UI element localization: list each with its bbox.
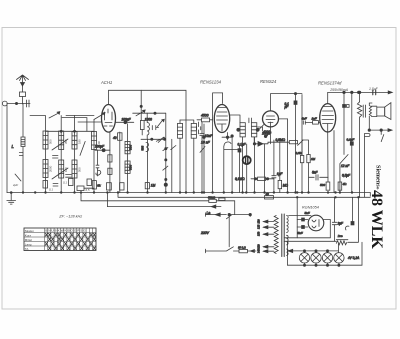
0,5uF label: [342, 174, 351, 178]
svg-text:Lang: Lang: [25, 242, 32, 246]
svg-text:500: 500: [49, 139, 53, 144]
svg-text:60: 60: [97, 140, 101, 144]
choke Dro: [336, 197, 358, 245]
0,5M resistor horizontal: [263, 138, 298, 144]
RENS1234 electrodes: [217, 108, 228, 132]
1uF cap: [272, 140, 284, 193]
2x0,1uF label: [12, 181, 90, 192]
rail3 resistors: [208, 195, 225, 202]
Siemens logo text: [368, 165, 385, 249]
antenna: [17, 75, 29, 104]
svg-text:0,5μF: 0,5μF: [342, 174, 351, 178]
wave trap cap: [15, 153, 23, 182]
5k resistor: [92, 181, 101, 189]
rail 2: [118, 193, 370, 198]
RENS24 grid coil label: [258, 127, 271, 134]
L label: [12, 144, 15, 149]
svg-text:1M: 1M: [151, 184, 156, 188]
100pF cap node: [95, 145, 110, 152]
svg-text:110: 110: [257, 219, 261, 224]
switch right: [298, 140, 303, 145]
plate bracket: [109, 90, 187, 192]
svg-text:Kurz: Kurz: [25, 233, 32, 237]
svg-text:0,5MΩ: 0,5MΩ: [276, 138, 286, 142]
svg-text:Dro: Dro: [338, 234, 343, 238]
trimmer vertical: [171, 139, 176, 192]
svg-text:5nF: 5nF: [305, 211, 310, 215]
rectifier connections: [289, 211, 311, 235]
rectifier RGN1054: [308, 215, 324, 231]
rail 3: [81, 193, 235, 215]
5nF cathode cap: [309, 171, 328, 181]
0,3M resistor: [296, 95, 304, 193]
lamp top bus: [288, 244, 338, 253]
svg-text:2000: 2000: [49, 165, 53, 172]
grid caps to output tube: [288, 140, 309, 193]
osc coupling coil: [147, 113, 149, 139]
rail 4 heater: [107, 193, 221, 209]
tube labels: [58, 79, 378, 219]
svg-text:12 nF: 12 nF: [341, 164, 350, 168]
RENS24 plate feed: [271, 93, 303, 141]
antenna jack: [2, 101, 30, 106]
left mid connector: [62, 118, 87, 178]
osc coil column: [145, 139, 155, 192]
RF coil column 1: [43, 116, 48, 193]
svg-text:125: 125: [257, 224, 261, 229]
secondary windings: [287, 216, 289, 256]
coupling caps before grid: [302, 116, 320, 124]
RF coil column 4: [92, 120, 97, 193]
svg-text:0,5: 0,5: [86, 188, 90, 192]
cap column: [345, 197, 354, 230]
padder vertical: [163, 113, 168, 192]
speaker: [372, 103, 391, 120]
heater wires: [284, 238, 336, 242]
plate to top rail: [328, 91, 393, 104]
svg-text:500: 500: [128, 145, 132, 150]
mains: La line: [205, 211, 251, 219]
osc coil A: [178, 120, 183, 193]
svg-text:BNUBKWKBOOPSG: BNUBKWKBOOPSG: [45, 229, 86, 233]
svg-text:0,1μF: 0,1μF: [347, 138, 355, 142]
screen feed vertical: [340, 92, 350, 192]
svg-text:0,1MΩ: 0,1MΩ: [235, 177, 245, 181]
cap right column: [347, 92, 355, 192]
left vertical wire: [6, 104, 8, 193]
switch row y139: [141, 137, 166, 141]
svg-text:RENS1234: RENS1234: [200, 79, 222, 84]
svg-text:40: 40: [266, 192, 270, 196]
tube RENS1234: [214, 105, 229, 133]
coil value labels: [49, 139, 101, 172]
svg-text:1M: 1M: [311, 157, 316, 161]
svg-text:1nF: 1nF: [312, 116, 317, 120]
RENS24 electrodes: [266, 116, 275, 127]
svg-text:50kΩ: 50kΩ: [208, 195, 216, 199]
svg-text:4000: 4000: [263, 130, 270, 134]
bottom resistors under ACH1: [107, 183, 125, 190]
power return vertical: [287, 197, 297, 265]
1M resistor: [307, 155, 316, 193]
svg-text:RGN1054: RGN1054: [302, 205, 319, 209]
svg-text:0,1: 0,1: [63, 181, 67, 185]
grid wire: [78, 121, 134, 124]
svg-text:10 nF: 10 nF: [201, 141, 211, 145]
0,5M vertical resistor: [278, 142, 288, 192]
switch pair: [158, 119, 165, 142]
diode triangle: [253, 137, 263, 192]
filter vertical with 2uF cap: [332, 197, 344, 241]
switch mid: [66, 113, 105, 120]
svg-text:TA: TA: [25, 247, 29, 251]
IF1 coils: [125, 124, 132, 193]
ACH1 electrodes: [104, 109, 113, 126]
lamp bottom bus: [287, 242, 362, 266]
svg-text:ACH1: ACH1: [100, 80, 112, 85]
resistor on rail2: [265, 192, 274, 199]
svg-text:ZF: ~128 kHz: ZF: ~128 kHz: [58, 215, 82, 219]
table header text: [25, 229, 87, 251]
svg-text:4500: 4500: [201, 114, 209, 118]
svg-text:2μF: 2μF: [337, 222, 345, 226]
svg-text:La: La: [207, 211, 211, 215]
svg-text:Siemens»: Siemens»: [374, 165, 381, 190]
svg-text:1000: 1000: [145, 118, 152, 122]
svg-text:150: 150: [257, 231, 261, 236]
rectifier loop: [323, 220, 330, 238]
volume pot column: [264, 144, 266, 193]
junction column: [231, 135, 233, 193]
svg-text:RENS1374d: RENS1374d: [318, 81, 342, 86]
jack dark circle: [243, 144, 251, 193]
svg-text:0,3M: 0,3M: [296, 151, 303, 155]
ACH1 cathode coil 40: [113, 132, 122, 193]
svg-text:1,5μF: 1,5μF: [369, 87, 379, 91]
cap: [152, 126, 158, 130]
tube RENS24: [263, 111, 279, 127]
svg-text:5nF: 5nF: [298, 231, 303, 235]
dial lamps: [299, 251, 359, 263]
svg-text:350: 350: [64, 139, 68, 144]
svg-text:220V: 220V: [200, 231, 210, 235]
transformer core: [282, 214, 284, 257]
cap left: [197, 122, 201, 134]
jack curl: [96, 150, 101, 176]
0,1M resistor horizontal: [235, 177, 274, 181]
cathode wires: [201, 118, 232, 193]
power transformer primary: [274, 216, 278, 254]
svg-text:48 WLK: 48 WLK: [368, 190, 385, 249]
band switch left: [30, 112, 60, 118]
svg-text:220: 220: [257, 244, 261, 249]
RENS24 cathode: [264, 119, 287, 144]
ground symbol: [7, 193, 16, 205]
svg-text:Skalen: Skalen: [25, 229, 35, 233]
tube RENS1374d: [320, 104, 336, 132]
series cap 1,5uF: [373, 90, 376, 95]
osc coil B: [180, 120, 196, 193]
svg-text:5nF: 5nF: [302, 116, 307, 120]
rectifier electrodes: [312, 220, 319, 228]
svg-text:Mittel: Mittel: [25, 238, 33, 242]
svg-text:500: 500: [320, 183, 325, 187]
svg-text:2μF: 2μF: [12, 183, 18, 187]
svg-text:180: 180: [77, 139, 81, 144]
band switch line: [133, 90, 166, 120]
svg-text:40: 40: [113, 136, 117, 140]
trimmer arrows: [52, 139, 68, 179]
speaker output transformer: [357, 91, 372, 197]
IF2 transformer: [230, 115, 272, 193]
mains lower line + fuse: [205, 245, 256, 253]
ground bus rail 1: [7, 193, 370, 197]
bottom caps left: [43, 156, 94, 191]
antenna coil branch: [21, 104, 25, 193]
junction dots on rails: [10, 191, 360, 198]
0,1uF cap: [224, 143, 247, 193]
ACH1 lower resistors: [108, 132, 112, 193]
svg-text:10nF: 10nF: [205, 134, 213, 138]
RF coil column 2: [59, 116, 64, 193]
svg-text:4V 0,2A: 4V 0,2A: [348, 256, 359, 260]
svg-text:Si 0,2: Si 0,2: [238, 245, 246, 249]
AF section: hook: [224, 142, 231, 193]
padder cap 10nF: [141, 122, 214, 193]
svg-text:100μF: 100μF: [122, 118, 132, 122]
speaker return: [365, 129, 393, 198]
svg-text:535: 535: [141, 145, 145, 150]
grid cap bracket: [213, 93, 223, 118]
svg-text:240: 240: [257, 248, 261, 253]
resistor 4500: [197, 114, 213, 122]
RF coil column 3: [72, 116, 77, 193]
100pF label: [122, 118, 132, 122]
RENS1374d electrodes: [322, 107, 334, 133]
resistor 1000 vertical: [140, 118, 152, 136]
svg-text:0,1: 0,1: [49, 188, 53, 192]
svg-text:0,1μF: 0,1μF: [238, 143, 247, 147]
primary taps: [257, 219, 275, 253]
svg-text:100pF: 100pF: [95, 145, 105, 149]
svg-text:5k: 5k: [97, 184, 101, 188]
svg-text:RENS24: RENS24: [260, 79, 277, 84]
svg-text:160: 160: [64, 167, 68, 172]
coil top connector: [46, 130, 95, 132]
table: [24, 228, 96, 251]
series cap: [27, 100, 30, 107]
table X marks: [45, 233, 96, 250]
svg-text:255V/90mA: 255V/90mA: [329, 88, 348, 92]
svg-text:500: 500: [128, 165, 132, 170]
voltage selector vertical: [200, 215, 229, 247]
cathode resistors: [320, 131, 347, 193]
svg-text:500: 500: [77, 167, 81, 172]
tube ACH1: [102, 105, 116, 133]
